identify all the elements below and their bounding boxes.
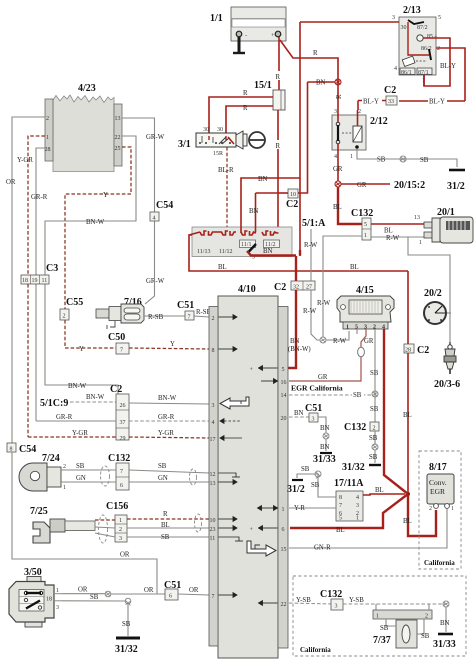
wire GR-W from 4/23 pin13 through C54-4 [122,118,165,304]
svg-text:31/32: 31/32 [342,462,365,473]
svg-text:33: 33 [388,99,394,105]
svg-text:29: 29 [120,436,126,442]
svg-text:BN-W: BN-W [68,383,87,390]
svg-text:1: 1 [364,233,367,239]
wire BN-W C2-26 to 4/10 pin3 [129,395,209,404]
svg-text:85: 85 [427,34,433,40]
svg-text:15R: 15R [213,151,223,157]
wire BL C132-5 to injector 20/1 [371,224,425,235]
wire Y-GR to C2-29 and 4/10 pin17 [28,430,209,438]
connector C156 pins 1,2,3 [106,501,128,542]
svg-text:4: 4 [356,495,359,501]
svg-text:8: 8 [10,447,13,453]
connector C51 pin 7 [177,300,194,321]
svg-text:BL-Y: BL-Y [440,63,456,70]
svg-text:1: 1 [119,518,122,524]
svg-text:SB: SB [369,435,378,442]
relay module 17/11A [318,478,364,522]
svg-text:7/25: 7/25 [30,506,48,517]
shield ellipse at 4/10 pins 10-23 [195,514,202,532]
svg-text:C54: C54 [19,444,36,455]
wire BL bus from panel left down and right [189,235,408,271]
svg-text:GN: GN [158,475,168,482]
fuse panel 11/13 11/12 11/1 11/2 [189,227,292,257]
svg-text:7: 7 [339,503,342,509]
connector C132 pins 5,1 [351,208,373,240]
svg-text:3: 3 [392,15,395,21]
svg-text:BL: BL [375,487,384,494]
svg-text:C2: C2 [110,384,122,395]
wire Y from 4/23 pin22 through C55 to C50 [65,147,131,353]
ground 31/32 mid right [342,462,381,473]
svg-text:20/1: 20/1 [437,207,455,218]
connector C132 pins 7,6 [108,453,130,490]
svg-text:R: R [243,105,248,112]
svg-text:Conv.: Conv. [429,478,447,487]
spark plug 20/3-6 [434,342,460,390]
svg-text:R: R [276,143,281,150]
svg-text:28: 28 [45,147,51,153]
control unit 4/23 [45,83,123,172]
svg-text:BN: BN [320,444,330,451]
svg-text:BN-W: BN-W [158,395,177,402]
svg-text:GN-R: GN-R [314,545,331,552]
clock 20/2 [424,288,451,324]
wire BL from 17/11A pin4 to junction [363,487,405,495]
wire Y-R from 4/10 pin1 to 17/11A [289,505,336,512]
svg-text:5/1:A: 5/1:A [302,218,326,229]
svg-text:20/15:2: 20/15:2 [394,180,425,191]
svg-text:4/23: 4/23 [78,83,96,94]
sensor 7/37 [373,619,430,648]
svg-text:20/2: 20/2 [424,288,442,299]
ignition lock 3/50 [9,567,62,627]
wire SB from 2/12 pin1 to ground 31/2 [357,149,457,167]
node junction Y-SB/BN [440,601,450,632]
svg-text:OR: OR [120,552,130,559]
svg-text:14: 14 [281,393,287,399]
svg-text:1: 1 [63,485,66,491]
svg-text:2: 2 [429,506,432,512]
wire BL-Y from C2-33 to relay 2/12 pin 2 [358,97,386,106]
svg-text:R: R [163,511,168,518]
svg-text:4: 4 [334,154,337,160]
label 5/1C:9 and connector C2 26 37 29 [40,384,129,442]
svg-text:8: 8 [339,495,342,501]
svg-text:31/32: 31/32 [115,644,138,655]
svg-text:GR: GR [357,182,367,189]
svg-text:31/33: 31/33 [433,639,456,650]
svg-text:7/37: 7/37 [373,635,391,646]
svg-text:1: 1 [451,506,454,512]
svg-text:10: 10 [290,192,296,198]
svg-text:26: 26 [120,403,126,409]
connector C54 pin 4 [150,200,173,222]
svg-text:SB: SB [76,463,85,470]
wire BN/BN-W heavy C2-32 to 4/10 pin5 [287,256,311,368]
svg-text:1: 1 [346,325,349,331]
wire battery plus feeds [279,22,410,256]
wire R-W C132-1 to injector [371,235,425,242]
svg-text:13: 13 [414,215,420,221]
svg-text:BL: BL [350,264,359,271]
svg-text:2: 2 [63,314,66,320]
wire SB dashed from 4/10 pin14 EGR [289,390,378,399]
svg-text:1/1: 1/1 [210,13,223,24]
svg-text:GR-W: GR-W [146,134,165,141]
svg-text:C51: C51 [305,403,322,414]
wire BL-Y from 2/13 pin2 down to C2-33 [399,63,465,106]
svg-text:BN: BN [249,208,259,215]
connector C50 pin 7 [108,332,209,354]
svg-text:32: 32 [293,285,299,291]
wire SB 7/25 to C156-3 to 4/10 pin11 [95,533,209,541]
svg-text:R: R [336,94,343,99]
svg-text:BN-W: BN-W [86,394,105,401]
svg-text:SB: SB [369,454,378,461]
svg-text:3: 3 [334,109,337,115]
svg-text:California: California [300,646,331,654]
svg-text:7: 7 [120,348,123,354]
svg-text:OR: OR [78,587,88,594]
wire BN from C2 pin10 up to junction [308,80,336,191]
wire SB 7/24 to C132-7 to 4/10 pin12 [61,463,209,473]
svg-text:15/1: 15/1 [254,80,272,91]
connector C2 pin 33 [384,85,397,105]
svg-text:15: 15 [281,547,287,553]
wire BL from GR junction down to C132 pin5 [333,187,362,224]
wire SB from 3/50 pin18 to ground 31/32 [62,594,131,636]
svg-text:30: 30 [203,127,209,133]
svg-text:(BN-W): (BN-W) [288,346,311,353]
svg-text:20/3-6: 20/3-6 [434,379,460,390]
svg-text:20: 20 [281,416,287,422]
svg-text:1: 1 [356,516,359,522]
svg-text:R-W: R-W [333,338,347,345]
svg-text:8/17: 8/17 [429,462,447,473]
connector C3 pins 18 19 11 [21,263,58,284]
wire R 7/25 to C156-1 to 4/10 pin10 [95,511,209,520]
svg-text:18: 18 [46,597,52,603]
svg-text:28: 28 [405,348,411,354]
svg-text:11/1: 11/1 [241,242,251,248]
svg-text:C132: C132 [351,208,373,219]
wire BL-R from ignition down to fuse panel [218,147,234,232]
svg-text:4/15: 4/15 [356,285,374,296]
svg-text:SB: SB [301,466,310,473]
dashed California box upper [419,451,461,569]
svg-text:6: 6 [120,483,123,489]
connector C2 pins 32 27 [274,281,315,293]
wire R ignition to fuse row2 [226,105,273,133]
svg-text:SB: SB [311,482,320,489]
connector C51 pin 6 [164,580,209,600]
svg-text:3: 3 [312,417,315,423]
ignition switch 3/1 [178,127,236,157]
svg-text:3: 3 [212,403,215,409]
svg-text:4/10: 4/10 [238,284,256,295]
svg-text:11/13: 11/13 [197,249,210,255]
relay 2/12 [332,94,388,160]
ground 31/2 top right [447,170,465,192]
svg-text:C156: C156 [106,501,128,512]
connector C132 pin 2 [344,422,379,463]
svg-text:BL: BL [333,204,342,211]
svg-text:SB: SB [353,392,362,399]
svg-text:3: 3 [356,503,359,509]
svg-text:7: 7 [188,315,191,321]
svg-text:30: 30 [217,127,223,133]
wire BN heavy from fuse pin3 [247,244,300,261]
svg-text:18: 18 [22,278,28,284]
svg-text:OR: OR [6,179,16,186]
svg-text:27: 27 [306,285,312,291]
svg-text:Y-SB: Y-SB [296,597,311,604]
svg-text:7: 7 [120,469,123,475]
shield ellipse 7/24 wires [101,466,110,486]
svg-text:Y-GR: Y-GR [17,157,33,164]
svg-text:C132: C132 [108,453,130,464]
node R-W junction [320,331,349,345]
wire BL heavy C2-28 down to junction [403,271,429,492]
svg-text:19: 19 [32,278,38,284]
connector C55 pin 2 [60,297,83,320]
svg-text:4: 4 [394,66,397,72]
svg-text:R-W: R-W [317,300,331,307]
svg-text:OR: OR [189,587,199,594]
svg-text:Y: Y [170,341,175,348]
svg-text:BN: BN [258,176,268,183]
svg-text:3: 3 [119,536,122,542]
ignition module 4/15 [337,285,394,331]
temp sensor 7/24 [19,453,66,491]
wire GN-R from 4/10 pin15 to 8/17 pin1 [289,509,447,552]
svg-text:SB: SB [158,463,167,470]
svg-text:2/12: 2/12 [370,116,388,127]
svg-text:1: 1 [376,614,379,620]
wire BN drop from battery bus to fuse 11/1 [241,176,300,233]
wire R ignition to fuse row1 [209,90,273,133]
ground lead battery negative [233,37,245,53]
heater bar 7/37 element [373,604,432,620]
control unit 4/10 [209,284,288,658]
svg-text:SB: SB [377,157,386,164]
svg-text:5/1C:9: 5/1C:9 [40,398,68,409]
svg-text:R: R [276,74,281,81]
svg-text:17/11A: 17/11A [334,478,364,489]
svg-text:GR-W: GR-W [146,278,165,285]
svg-text:C3: C3 [46,263,58,274]
dashed California box lower [293,576,466,656]
svg-text:GR-R: GR-R [56,414,73,421]
svg-text:BN: BN [320,425,330,432]
injector 20/1 [414,207,473,246]
relay 2/13 [392,5,465,101]
svg-text:BL-R: BL-R [218,167,234,174]
svg-text:R-W: R-W [304,242,318,249]
ground 31/33 bottom right [433,634,456,650]
svg-text:BN: BN [294,410,304,417]
svg-text:3: 3 [56,605,59,611]
svg-text:3/1: 3/1 [178,139,191,150]
svg-text:2/13: 2/13 [403,5,421,16]
svg-text:17: 17 [210,437,216,443]
svg-text:R: R [313,50,318,57]
svg-text:22: 22 [281,602,287,608]
svg-text:13: 13 [115,116,121,122]
svg-text:22: 22 [115,135,121,141]
svg-text:SB: SB [420,157,429,164]
svg-text:3: 3 [335,604,338,610]
svg-text:SB: SB [90,594,99,601]
svg-text:8: 8 [212,348,215,354]
svg-text:1: 1 [350,154,353,160]
svg-text:SB: SB [421,633,430,640]
svg-text:BN: BN [316,80,326,87]
svg-text:1: 1 [46,135,49,141]
wire BL 7/25 to C156-2 to 4/10 pin23 [95,522,209,529]
svg-text:31/2: 31/2 [287,484,305,495]
connector C54 pin 8 [7,443,36,455]
svg-text:EGR California: EGR California [291,384,343,393]
svg-text:23: 23 [210,527,216,533]
svg-text:7: 7 [212,594,215,600]
svg-text:Y: Y [79,346,84,353]
svg-text:-: - [245,33,247,39]
svg-text:Y: Y [103,192,108,199]
svg-text:25: 25 [115,146,121,152]
node BL junction [406,492,410,496]
svg-text:2: 2 [63,464,66,470]
label 5/1:A [302,218,326,281]
key symbol [236,131,265,149]
wire OR from C54-8 down and right [12,452,157,594]
svg-text:87/2: 87/2 [417,25,428,31]
wire SB chain from 4/15 pin2 down [370,329,379,445]
throttle switch 7/16 [96,297,144,329]
wire OR from 3/50 pin1 to junction [62,587,105,594]
svg-text:Y-GR: Y-GR [72,430,88,437]
svg-text:BL: BL [403,518,412,525]
svg-text:R-W: R-W [386,235,400,242]
svg-text:1: 1 [56,588,59,594]
wire R-SB from 7/16 to C51-7 to 4/10 pin2 [144,309,212,321]
svg-text:C132: C132 [344,422,366,433]
svg-text:C51: C51 [177,300,194,311]
node junction R/BN at (338,82) [335,79,341,85]
svg-text:GR-R: GR-R [158,414,175,421]
wire from fuse row to C2-10 [249,193,278,232]
svg-text:C54: C54 [156,200,173,211]
svg-text:GR: GR [333,166,343,173]
svg-text:6: 6 [169,594,172,600]
connector C2 pin 10 [278,189,308,210]
svg-text:SB: SB [370,370,379,377]
wire BL from 4/15 pin4 down to junction [384,329,408,494]
svg-text:EGR: EGR [430,487,445,496]
wire BL from junction to 4/10 pin6 [290,494,408,534]
svg-text:5: 5 [438,15,441,21]
wire BL junction down to 8/17 pin2 [403,494,436,536]
svg-text:7/24: 7/24 [42,453,60,464]
svg-text:SB: SB [380,625,389,632]
svg-text:31/2: 31/2 [447,181,465,192]
wire GR from 2/12 pin4 [333,144,343,181]
svg-text:BN: BN [263,248,273,255]
wire R-W from C132-1 branch down to 4/15 pin1 [317,236,362,337]
wire GN 7/24 to C132-6 to 4/10 pin13 [61,475,209,482]
svg-text:BL-Y: BL-Y [429,99,445,106]
svg-text:Y-R: Y-R [294,505,305,512]
svg-text:GN: GN [76,475,86,482]
svg-text:R-SB: R-SB [148,314,164,321]
svg-text:13: 13 [210,481,216,487]
svg-text:10: 10 [210,518,216,524]
svg-text:11: 11 [210,536,216,542]
svg-text:6: 6 [282,527,285,533]
svg-text:11/12: 11/12 [219,249,232,255]
svg-text:37: 37 [120,420,126,426]
svg-text:Y-GR: Y-GR [158,430,174,437]
svg-text:GR-R: GR-R [31,194,48,201]
svg-text:31/33: 31/33 [313,454,336,465]
svg-text:Y-SB: Y-SB [349,597,364,604]
svg-text:2: 2 [212,316,215,322]
svg-text:4: 4 [153,216,156,222]
fuse 15/1 [254,71,285,234]
svg-text:BL: BL [161,522,170,529]
svg-text:1: 1 [282,507,285,513]
svg-text:5: 5 [282,367,285,373]
svg-text:C50: C50 [108,332,125,343]
wire BN pin20 to C51-3 to ground 31/33 [289,403,336,465]
svg-text:C55: C55 [66,297,83,308]
svg-text:11: 11 [42,278,48,284]
svg-text:16: 16 [281,380,287,386]
wire GR-R to C2-37 and 4/10 pin4 [36,414,209,421]
svg-text:R-W: R-W [303,308,317,315]
wire R-W from C2-27 down [303,290,320,340]
svg-text:C2: C2 [417,345,429,356]
svg-text:BL-Y: BL-Y [363,99,379,106]
svg-text:4: 4 [212,420,215,426]
wire OR from 4/23 pin2 down left side [6,117,45,443]
svg-text:BL: BL [336,527,345,534]
svg-text:OR: OR [144,587,154,594]
svg-text:2: 2 [425,614,428,620]
svg-text:C132: C132 [320,589,342,600]
svg-text:12: 12 [210,472,216,478]
svg-text:BN: BN [290,338,300,345]
svg-text:BN-W: BN-W [86,219,105,226]
svg-text:SB: SB [370,406,379,413]
svg-text:5: 5 [364,222,367,228]
svg-text:C2: C2 [384,85,396,96]
svg-text:GR: GR [318,374,328,381]
svg-text:BL: BL [218,264,227,271]
knock sensor 7/25 [30,506,95,543]
svg-text:SB: SB [161,534,170,541]
svg-text:BL: BL [403,412,412,419]
ground 31/2 near 17/11A [287,466,321,495]
svg-text:1: 1 [419,240,422,246]
svg-text:R: R [243,90,248,97]
label EGR California pin14 [291,384,343,393]
svg-text:BL: BL [384,228,393,235]
wire BN-W from 4/23 pin25 down to C3-11 [45,136,136,394]
wire GR-R from 4/23 pin28 [31,148,48,421]
pin arrows inside 4/10 [219,315,278,606]
